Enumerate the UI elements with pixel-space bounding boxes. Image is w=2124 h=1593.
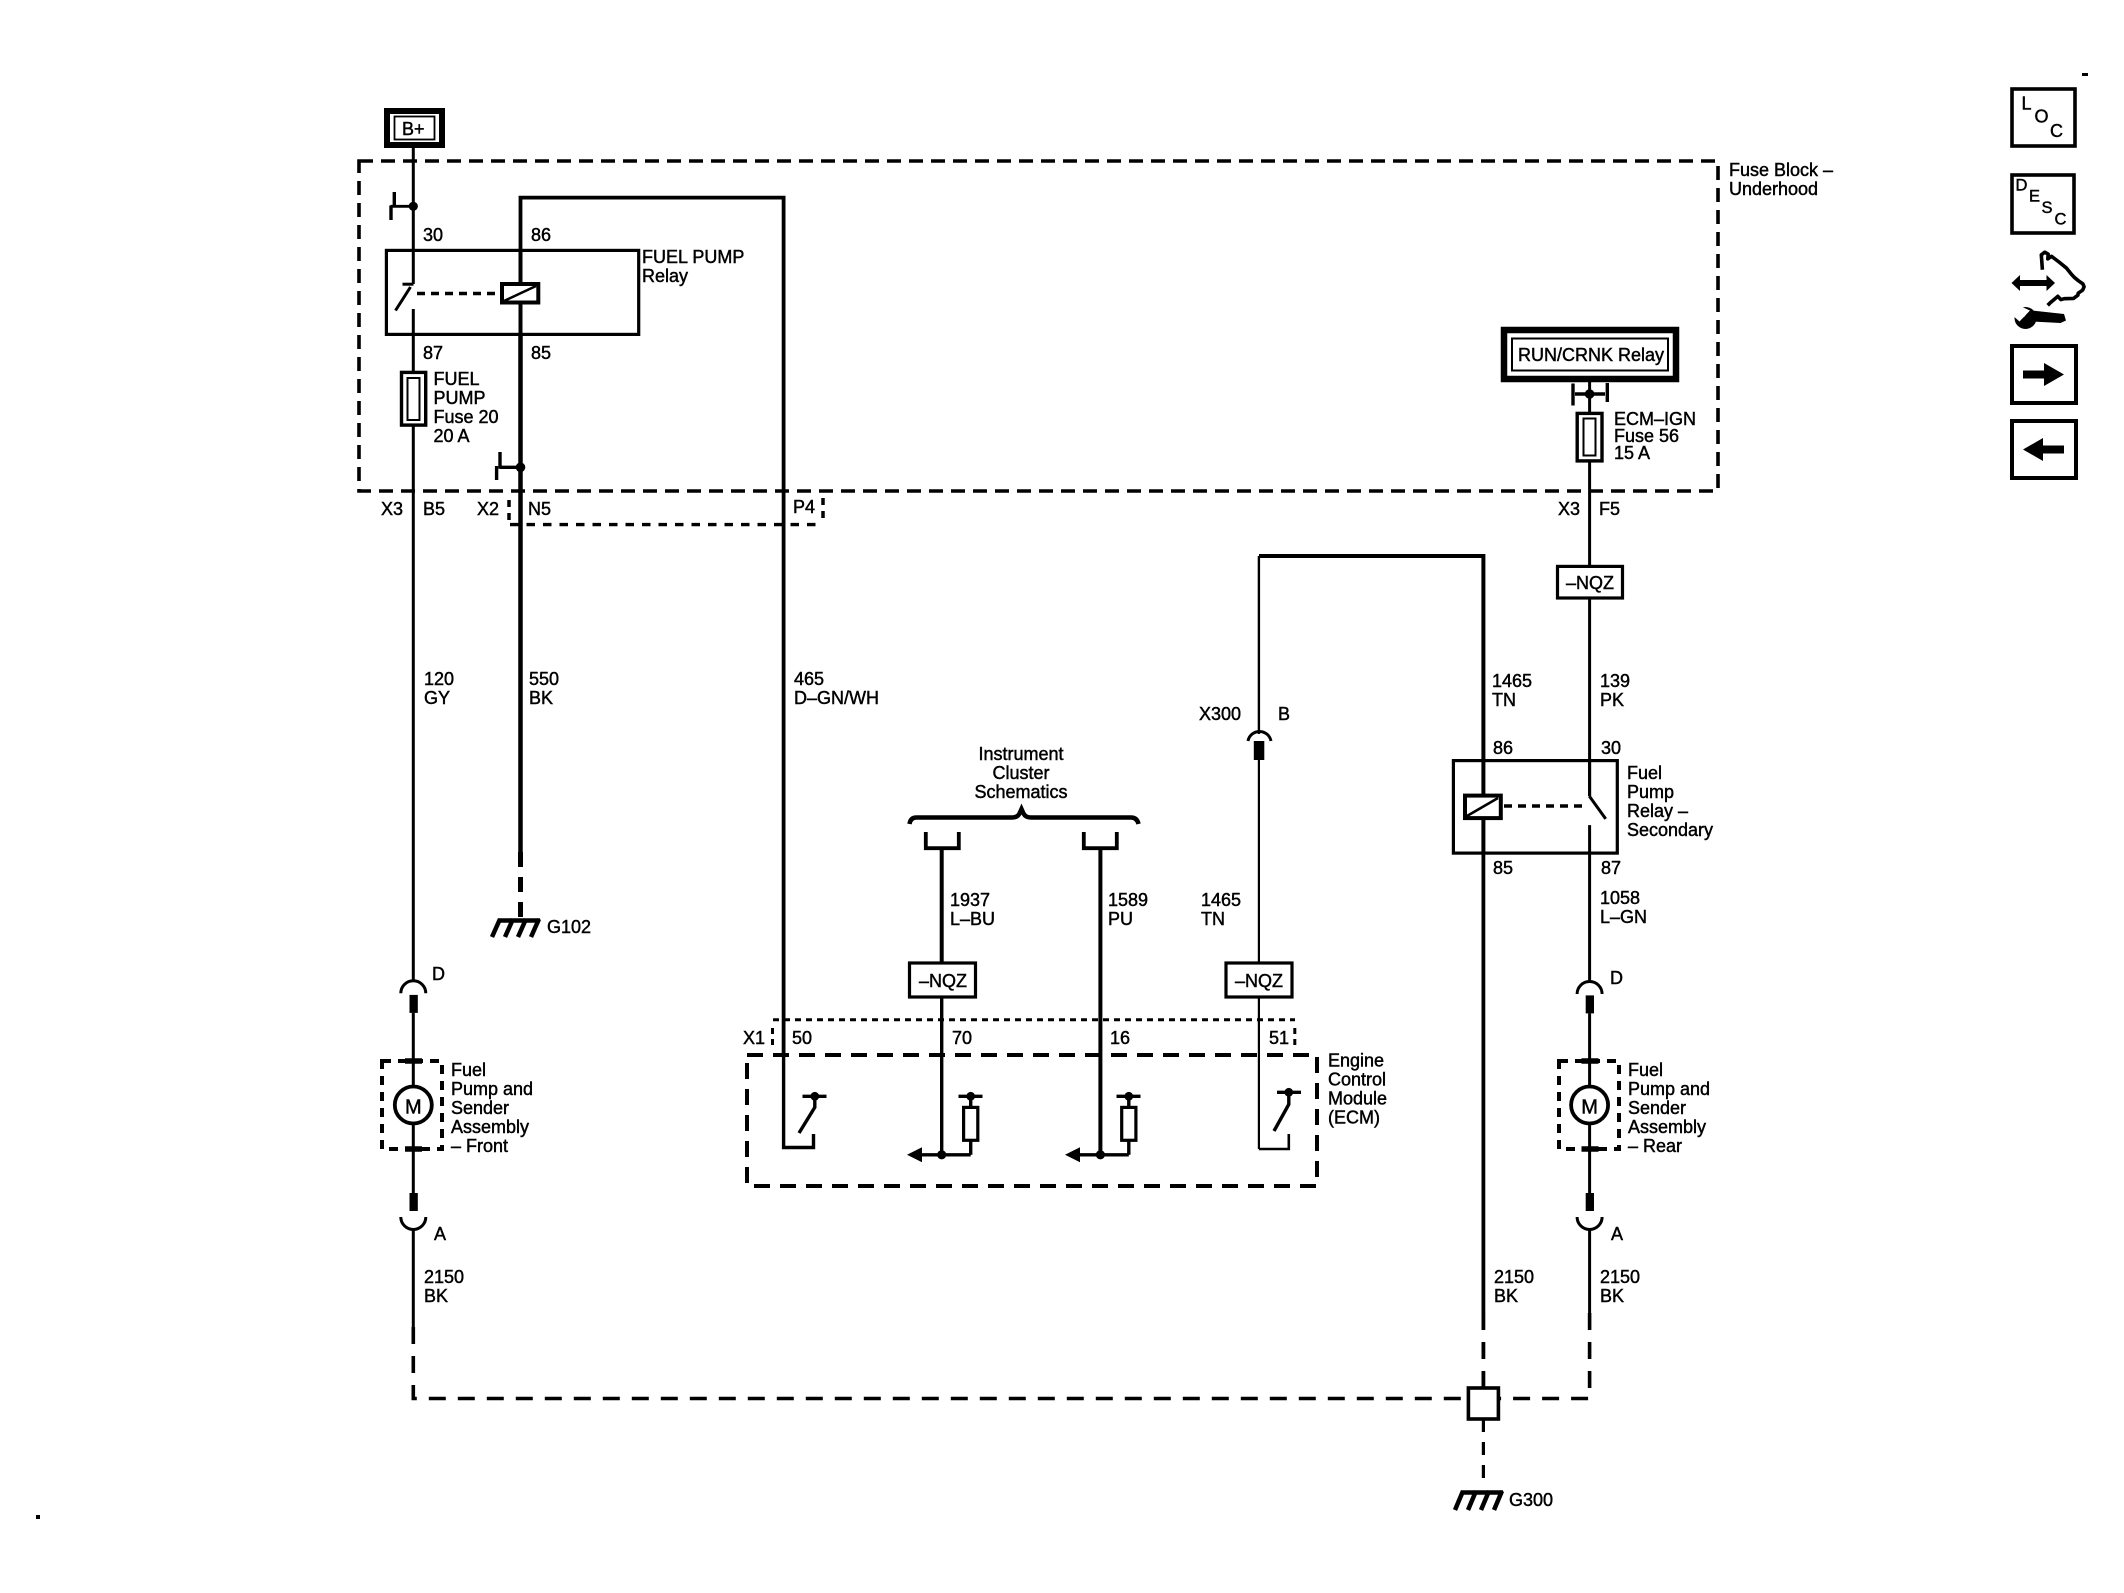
wire label 120 GY bbox=[424, 669, 454, 708]
connector X2 dotted outline bbox=[509, 498, 823, 525]
svg-text:Fuse 20: Fuse 20 bbox=[434, 407, 499, 427]
wire connector D to pump rear bbox=[1588, 1013, 1591, 1086]
svg-text:Pump and: Pump and bbox=[1628, 1079, 1710, 1099]
Engine Control Module label bbox=[1328, 1051, 1387, 1128]
splice junction box bbox=[1468, 1388, 1498, 1419]
FUEL PUMP Relay label bbox=[642, 247, 744, 286]
svg-text:X2: X2 bbox=[477, 499, 499, 519]
dashed wire front pump ground run bbox=[413, 1327, 1466, 1399]
wire label 1465 TN bbox=[1492, 671, 1532, 710]
svg-text:2150: 2150 bbox=[1494, 1267, 1534, 1287]
wire NQZ to relay pin 30 bbox=[1588, 598, 1591, 796]
svg-text:G300: G300 bbox=[1509, 1490, 1553, 1510]
svg-text:Sender: Sender bbox=[451, 1098, 509, 1118]
svg-text:FUEL: FUEL bbox=[434, 369, 480, 389]
ECM-IGN Fuse 56 symbol bbox=[1577, 413, 1602, 461]
svg-text:RUN/CRNK Relay: RUN/CRNK Relay bbox=[1518, 345, 1664, 365]
svg-text:1058: 1058 bbox=[1600, 888, 1640, 908]
svg-text:87: 87 bbox=[1601, 858, 1621, 878]
svg-text:TN: TN bbox=[1492, 690, 1516, 710]
relay 1 actuation dashed link bbox=[417, 292, 500, 295]
svg-text:2150: 2150 bbox=[1600, 1267, 1640, 1287]
svg-text:87: 87 bbox=[423, 343, 443, 363]
Fuel Pump Relay - Secondary label bbox=[1627, 763, 1713, 840]
wire pump rear to connector A bbox=[1588, 1124, 1591, 1193]
svg-text:B: B bbox=[1278, 704, 1290, 724]
bus tap on 85 wire bbox=[497, 452, 526, 480]
svg-text:20 A: 20 A bbox=[434, 426, 470, 446]
wire relay pin 87 to fuse bbox=[412, 335, 415, 373]
svg-text:85: 85 bbox=[531, 343, 551, 363]
svg-text:M: M bbox=[1581, 1097, 1598, 1119]
NQZ option box on 1465 wire bbox=[1226, 963, 1292, 997]
FUEL PUMP Fuse 20 symbol bbox=[402, 372, 426, 425]
svg-text:Fuse Block –: Fuse Block – bbox=[1729, 160, 1833, 180]
wire fuse to connector X3 B5 and down bbox=[412, 425, 415, 982]
svg-text:30: 30 bbox=[1601, 738, 1621, 758]
svg-text:51: 51 bbox=[1269, 1028, 1289, 1048]
svg-text:–NQZ: –NQZ bbox=[919, 971, 967, 991]
svg-text:Assembly: Assembly bbox=[1628, 1117, 1706, 1137]
relay 2 coil bbox=[1465, 761, 1501, 854]
wire fuse 56 down through X3 F5 bbox=[1588, 461, 1591, 567]
FUEL PUMP Relay box bbox=[386, 250, 638, 334]
wire relay pin 86 up and right to P4 bbox=[521, 198, 784, 1055]
wire label 1465 TN lower bbox=[1201, 890, 1241, 929]
svg-text:P4: P4 bbox=[793, 497, 815, 517]
Fuel Pump and Sender Assembly Rear label bbox=[1628, 1060, 1710, 1156]
DESC icon box bbox=[2012, 175, 2074, 233]
svg-text:1465: 1465 bbox=[1492, 671, 1532, 691]
connector row labels X3 F5 bbox=[1558, 499, 1620, 519]
svg-text:X1: X1 bbox=[743, 1028, 765, 1048]
stray mark bottom left bbox=[36, 1515, 40, 1519]
connector A front bbox=[401, 1193, 446, 1244]
wrench icon bbox=[2011, 303, 2066, 330]
wire relay pin 85 down bbox=[518, 335, 523, 853]
svg-text:N5: N5 bbox=[528, 499, 551, 519]
Fuel Pump and Sender Assembly Front label bbox=[451, 1060, 533, 1156]
cluster connector stub left bbox=[926, 832, 959, 963]
svg-text:BK: BK bbox=[424, 1286, 448, 1306]
svg-text:D–GN/WH: D–GN/WH bbox=[794, 688, 879, 708]
wire relay2 87 down to connector D bbox=[1588, 853, 1591, 983]
svg-text:BK: BK bbox=[1494, 1286, 1518, 1306]
svg-text:PU: PU bbox=[1108, 909, 1133, 929]
svg-text:Sender: Sender bbox=[1628, 1098, 1686, 1118]
svg-text:1589: 1589 bbox=[1108, 890, 1148, 910]
wire connector A down 2150 BK bbox=[412, 1228, 415, 1327]
svg-text:O: O bbox=[2035, 107, 2049, 127]
ECM switch at pin 51 bbox=[1259, 1088, 1301, 1149]
dashed wire 85 to splice bbox=[1482, 1313, 1486, 1388]
Fuel Pump and Sender Assembly Rear dashed box bbox=[1559, 1061, 1619, 1149]
svg-text:BK: BK bbox=[1600, 1286, 1624, 1306]
svg-text:1937: 1937 bbox=[950, 890, 990, 910]
forward arrow icon box bbox=[2012, 346, 2076, 403]
ECM pin row labels bbox=[743, 1028, 1289, 1048]
svg-text:Engine: Engine bbox=[1328, 1051, 1384, 1071]
Fuel Pump Relay - Secondary box bbox=[1453, 761, 1617, 854]
wire connector D to pump front bbox=[412, 1013, 415, 1086]
wire NQZ to ECM pin 70 bbox=[940, 997, 943, 1155]
svg-text:BK: BK bbox=[529, 688, 553, 708]
svg-text:B+: B+ bbox=[402, 119, 425, 139]
svg-text:120: 120 bbox=[424, 669, 454, 689]
connector X300 B bbox=[1199, 556, 1290, 760]
NQZ option box on 1937 wire bbox=[910, 963, 976, 997]
svg-text:–NQZ: –NQZ bbox=[1566, 573, 1614, 593]
stray mark top right bbox=[2082, 73, 2088, 76]
NQZ option box on 139 PK wire bbox=[1558, 566, 1623, 598]
svg-text:– Front: – Front bbox=[451, 1136, 508, 1156]
dashed wire rear pump to splice bbox=[1500, 1313, 1590, 1399]
cluster connector stub right bbox=[1084, 832, 1117, 1155]
svg-text:86: 86 bbox=[531, 225, 551, 245]
svg-text:D: D bbox=[2016, 177, 2028, 195]
double arrow of icon bbox=[2012, 275, 2056, 291]
svg-text:2150: 2150 bbox=[424, 1267, 464, 1287]
svg-text:15 A: 15 A bbox=[1614, 443, 1650, 463]
dashed wire 550 BK to ground bbox=[518, 852, 523, 917]
svg-text:Module: Module bbox=[1328, 1089, 1387, 1109]
svg-text:D: D bbox=[1610, 968, 1623, 988]
svg-text:A: A bbox=[434, 1224, 446, 1244]
svg-text:X3: X3 bbox=[381, 499, 403, 519]
svg-text:16: 16 bbox=[1110, 1028, 1130, 1048]
B+ battery feed symbol bbox=[387, 111, 442, 145]
fuel pump motor M front bbox=[395, 1087, 432, 1124]
Instrument Cluster Schematics label bbox=[974, 744, 1067, 802]
Engine Control Module dashed box bbox=[747, 1055, 1317, 1186]
fuel pump motor M rear bbox=[1571, 1087, 1608, 1124]
dashed wire splice to ground G300 bbox=[1482, 1419, 1485, 1483]
svg-text:Underhood: Underhood bbox=[1729, 179, 1818, 199]
svg-text:Pump: Pump bbox=[1627, 782, 1674, 802]
relay 1 coil bbox=[502, 250, 538, 334]
svg-text:Fuel: Fuel bbox=[1627, 763, 1662, 783]
wire label 1058 L-GN bbox=[1600, 888, 1647, 927]
svg-text:F5: F5 bbox=[1599, 499, 1620, 519]
svg-text:PK: PK bbox=[1600, 690, 1624, 710]
svg-text:465: 465 bbox=[794, 669, 824, 689]
svg-text:Relay –: Relay – bbox=[1627, 801, 1688, 821]
wire X300 down to NQZ bbox=[1258, 760, 1260, 963]
svg-text:30: 30 bbox=[423, 225, 443, 245]
svg-text:86: 86 bbox=[1493, 738, 1513, 758]
svg-text:B5: B5 bbox=[423, 499, 445, 519]
svg-text:X3: X3 bbox=[1558, 499, 1580, 519]
relay 2 switch blade bbox=[1589, 761, 1605, 854]
wire label 2150 BK mid bbox=[1494, 1267, 1534, 1306]
svg-text:Instrument: Instrument bbox=[978, 744, 1063, 764]
svg-text:–NQZ: –NQZ bbox=[1235, 971, 1283, 991]
svg-text:Relay: Relay bbox=[642, 266, 688, 286]
connector D rear bbox=[1577, 968, 1623, 1013]
ground G102 bbox=[492, 919, 540, 937]
wire tap to ECM-IGN fuse bbox=[1588, 379, 1591, 413]
RUN/CRNK Relay label box bbox=[1504, 330, 1676, 379]
ECM-IGN Fuse 56 label bbox=[1614, 409, 1696, 463]
Fuse Block - Underhood dashed box bbox=[359, 161, 1718, 491]
svg-text:S: S bbox=[2042, 199, 2053, 217]
wire label 465 D-GN/WH bbox=[794, 669, 879, 708]
ground G300 bbox=[1455, 1491, 1503, 1510]
svg-text:A: A bbox=[1611, 1224, 1623, 1244]
wire label 2150 BK front bbox=[424, 1267, 464, 1306]
svg-text:C: C bbox=[2055, 211, 2067, 229]
svg-text:(ECM): (ECM) bbox=[1328, 1108, 1380, 1128]
Fuel Pump and Sender Assembly Front dashed box bbox=[382, 1061, 442, 1149]
svg-text:70: 70 bbox=[952, 1028, 972, 1048]
svg-text:L: L bbox=[2022, 94, 2032, 114]
ECM switch at pin 50 bbox=[784, 1055, 827, 1148]
ECM resistor at pin 70 bbox=[907, 1092, 983, 1162]
wire connector A rear down bbox=[1588, 1228, 1591, 1313]
svg-text:D: D bbox=[432, 964, 445, 984]
wire relay2 85 down bbox=[1482, 853, 1486, 1313]
svg-text:Control: Control bbox=[1328, 1070, 1386, 1090]
wire label 550 BK bbox=[529, 669, 559, 708]
svg-text:C: C bbox=[2050, 121, 2063, 141]
Fuse Block - Underhood label bbox=[1729, 160, 1833, 199]
FUEL PUMP Fuse 20 label bbox=[434, 369, 499, 446]
ECM resistor at pin 16 bbox=[1065, 1092, 1141, 1162]
svg-text:L–BU: L–BU bbox=[950, 909, 995, 929]
svg-text:Secondary: Secondary bbox=[1627, 820, 1713, 840]
svg-text:G102: G102 bbox=[547, 917, 591, 937]
wire B+ to relay pin 30 bbox=[412, 148, 415, 284]
bus tap under RUN/CRNK relay bbox=[1573, 383, 1607, 406]
svg-text:85: 85 bbox=[1493, 858, 1513, 878]
wire NQZ to ECM pin 51 bbox=[1258, 997, 1260, 1149]
wire label 139 PK bbox=[1600, 671, 1630, 710]
vehicle outline icon bbox=[2041, 252, 2084, 305]
wire label 1937 L-BU bbox=[950, 890, 995, 929]
svg-text:M: M bbox=[405, 1097, 422, 1119]
LOC icon box bbox=[2012, 89, 2075, 146]
bus tap on B+ feed bbox=[391, 192, 418, 220]
wire 1465 TN from corner to relay pin 86 bbox=[1259, 556, 1483, 761]
svg-text:TN: TN bbox=[1201, 909, 1225, 929]
svg-text:Pump and: Pump and bbox=[451, 1079, 533, 1099]
svg-text:L–GN: L–GN bbox=[1600, 907, 1647, 927]
connector A rear bbox=[1577, 1193, 1623, 1244]
wire label 1589 PU bbox=[1108, 890, 1148, 929]
svg-text:GY: GY bbox=[424, 688, 450, 708]
X1 dotted connector line bbox=[773, 1020, 1296, 1047]
connector row labels X3 B5 X2 N5 bbox=[381, 499, 551, 519]
relay 2 actuation dashed link bbox=[1504, 804, 1585, 807]
svg-text:Cluster: Cluster bbox=[992, 763, 1049, 783]
brace under Instrument Cluster Schematics bbox=[910, 809, 1139, 824]
connector D front bbox=[401, 964, 445, 1013]
svg-text:X300: X300 bbox=[1199, 704, 1241, 724]
svg-text:1465: 1465 bbox=[1201, 890, 1241, 910]
wire label 2150 BK rear bbox=[1600, 1267, 1640, 1306]
svg-text:Fuel: Fuel bbox=[451, 1060, 486, 1080]
svg-text:550: 550 bbox=[529, 669, 559, 689]
back arrow icon box bbox=[2012, 421, 2076, 478]
svg-text:PUMP: PUMP bbox=[434, 388, 486, 408]
svg-text:139: 139 bbox=[1600, 671, 1630, 691]
svg-text:E: E bbox=[2029, 188, 2040, 206]
svg-text:50: 50 bbox=[792, 1028, 812, 1048]
svg-text:Assembly: Assembly bbox=[451, 1117, 529, 1137]
wire pump front to connector A bbox=[412, 1124, 415, 1193]
relay 1 switch blade bbox=[396, 284, 414, 334]
svg-text:Schematics: Schematics bbox=[974, 782, 1067, 802]
svg-text:FUEL PUMP: FUEL PUMP bbox=[642, 247, 744, 267]
svg-text:Fuel: Fuel bbox=[1628, 1060, 1663, 1080]
svg-text:– Rear: – Rear bbox=[1628, 1136, 1682, 1156]
